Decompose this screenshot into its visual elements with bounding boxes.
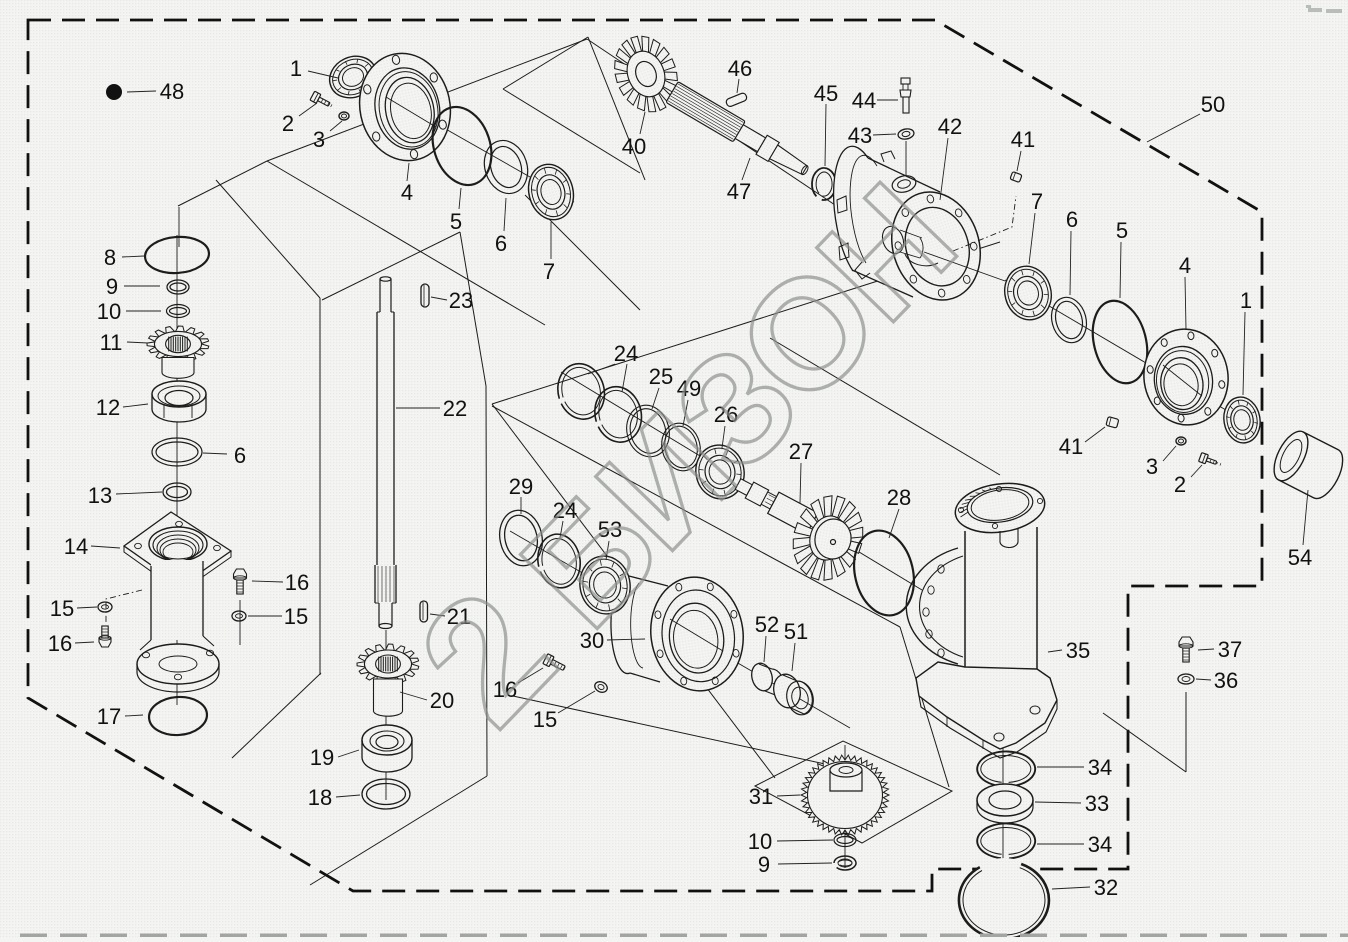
panel line B-top — [503, 37, 588, 89]
line 44 to housing hole — [905, 141, 907, 177]
svg-text:37: 37 — [1218, 637, 1242, 662]
plug 41 top — [1010, 172, 1022, 183]
label 10 bottom — [748, 829, 833, 854]
label 34b — [1037, 832, 1112, 857]
panel line A-leader — [178, 161, 267, 206]
panel line B-right — [588, 37, 645, 180]
svg-text:1: 1 — [290, 56, 302, 81]
watermark BIZON — [383, 154, 986, 761]
panel line D-top — [770, 338, 1000, 475]
svg-text:28: 28 — [887, 485, 911, 510]
panel line gear20-bottom — [310, 776, 487, 885]
split ring 34a — [977, 751, 1035, 786]
label 31 — [749, 784, 800, 809]
snap ring 32 — [959, 858, 1049, 942]
svg-text:18: 18 — [308, 785, 332, 810]
svg-text:34: 34 — [1088, 832, 1112, 857]
label 29 — [509, 474, 533, 514]
ring 13 — [163, 483, 191, 501]
label 49 — [677, 376, 701, 426]
axis line ring group 24-27 — [561, 372, 922, 590]
label 9 bottom — [758, 852, 832, 877]
washer 15 mid — [593, 680, 609, 695]
svg-text:36: 36 — [1214, 668, 1238, 693]
panel line A-left — [267, 161, 545, 325]
pin 23 — [421, 284, 429, 307]
label 46 — [728, 56, 752, 93]
svg-text:6: 6 — [1066, 207, 1078, 232]
label 24 top — [588, 341, 638, 392]
svg-text:4: 4 — [1179, 253, 1191, 278]
label 15 left — [50, 596, 97, 621]
split ring 34b — [977, 823, 1035, 858]
bottom edge cut-off marks — [20, 934, 1348, 938]
o-ring 28 — [846, 525, 922, 622]
nut 3 right — [1176, 437, 1186, 445]
line 16r-flange — [239, 600, 241, 645]
o-ring 17 — [148, 695, 209, 737]
label 15 mid — [533, 691, 595, 732]
svg-text:8: 8 — [104, 245, 116, 270]
panel line shaft22-left — [319, 298, 321, 675]
ring 10 — [167, 305, 190, 318]
label 16 right — [252, 570, 309, 595]
42 dash-dot to 41 — [953, 196, 1016, 251]
label 14 — [64, 534, 120, 559]
label 6 — [495, 198, 507, 256]
panel line shaft22-left-top — [216, 180, 320, 298]
panel line D-bottom — [513, 696, 825, 764]
panel line B-bottom — [503, 89, 640, 173]
label 30 — [580, 628, 645, 653]
label 13 — [88, 483, 162, 508]
svg-text:16: 16 — [48, 631, 72, 656]
housing 35 — [906, 478, 1057, 758]
flange 4 — [350, 45, 460, 169]
panel line C-bottom — [492, 406, 900, 627]
label 4 right — [1179, 253, 1191, 329]
svg-text:42: 42 — [938, 114, 962, 139]
leader to o-ring 8 — [178, 207, 180, 247]
snap ring 45 — [812, 168, 836, 200]
panel line 37-vert — [1185, 692, 1187, 772]
ring 6 right — [1047, 293, 1092, 346]
svg-text:45: 45 — [814, 81, 838, 106]
svg-text:43: 43 — [848, 123, 872, 148]
screw 2 — [310, 91, 334, 110]
screw 2 right — [1199, 453, 1222, 469]
shaft 22 — [375, 277, 396, 629]
label 1 right — [1240, 288, 1252, 395]
bolt 37 — [1179, 637, 1193, 662]
svg-text:4: 4 — [401, 180, 413, 205]
svg-text:7: 7 — [1031, 189, 1043, 214]
washer 43 — [897, 128, 914, 141]
svg-text:10: 10 — [97, 299, 121, 324]
svg-text:3: 3 — [313, 127, 325, 152]
label 2 right — [1174, 465, 1202, 497]
label 8 — [104, 245, 144, 270]
axis line left stack — [176, 235, 178, 705]
flange 14 — [124, 512, 231, 592]
label 7 — [543, 222, 555, 284]
nut 3 — [339, 112, 349, 120]
label 5 right — [1116, 218, 1128, 298]
bushing 52 — [749, 661, 784, 696]
label 47 — [727, 158, 751, 204]
svg-text:2: 2 — [1174, 472, 1186, 497]
axis in flange 4 bore — [386, 97, 436, 127]
shaft 47 — [666, 82, 813, 182]
dash-dot 14-15 — [106, 590, 142, 624]
svg-text:17: 17 — [97, 704, 121, 729]
svg-text:29: 29 — [509, 474, 533, 499]
svg-text:9: 9 — [758, 852, 770, 877]
flange 4 right — [1138, 324, 1235, 431]
label 16 left — [48, 631, 94, 656]
label 3 right — [1146, 446, 1176, 479]
svg-text:2: 2 — [282, 111, 294, 136]
svg-text:52: 52 — [755, 612, 779, 637]
panel line D-right2 — [900, 627, 949, 787]
ring 25 — [621, 401, 674, 462]
label 3 — [313, 121, 342, 152]
svg-text:32: 32 — [1094, 875, 1118, 900]
axis line gear20 stack — [385, 630, 387, 800]
label 6 stack — [203, 443, 246, 468]
svg-text:14: 14 — [64, 534, 88, 559]
item 48 dot — [106, 84, 122, 100]
svg-text:35: 35 — [1066, 638, 1090, 663]
o-ring 8 — [144, 235, 210, 275]
panel line A-right — [587, 39, 850, 215]
label 40 — [622, 112, 646, 159]
axis in flange 4R bore — [1163, 365, 1202, 396]
panel line C-top — [492, 242, 1000, 404]
label 17 — [97, 704, 143, 729]
screw 16 mid — [543, 654, 567, 674]
housing 42 — [834, 146, 994, 311]
svg-text:54: 54 — [1288, 545, 1312, 570]
svg-text:44: 44 — [852, 88, 876, 113]
panel line shaft22-roof-r — [460, 232, 486, 386]
svg-text:48: 48 — [160, 79, 184, 104]
axis in 30 bore — [670, 619, 723, 651]
label 26 — [714, 402, 738, 448]
svg-text:41: 41 — [1011, 127, 1035, 152]
svg-text:51: 51 — [784, 619, 808, 644]
bearing 7 — [523, 159, 580, 224]
label 20 — [400, 688, 454, 713]
housing 30 — [611, 571, 751, 697]
label 7 right — [1029, 189, 1043, 264]
svg-text:47: 47 — [727, 179, 751, 204]
bearing 12 — [152, 381, 206, 422]
panel line 37-diag — [1103, 713, 1186, 772]
bushing 51 — [770, 671, 817, 718]
svg-text:15: 15 — [50, 596, 74, 621]
bolt 16 right — [234, 569, 247, 594]
axis out of 42 bore — [924, 252, 1005, 281]
label 10 — [97, 299, 161, 324]
svg-text:15: 15 — [284, 604, 308, 629]
svg-text:12: 12 — [96, 395, 120, 420]
pinion shaft 27 — [732, 473, 817, 534]
label 15 right — [248, 604, 308, 629]
axis line gear31 stack — [844, 745, 846, 868]
svg-text:13: 13 — [88, 483, 112, 508]
washer 36 — [1178, 674, 1194, 684]
label 48 — [127, 79, 184, 104]
svg-text:9: 9 — [106, 274, 118, 299]
svg-text:33: 33 — [1085, 791, 1109, 816]
bearing 53 — [575, 552, 634, 618]
label 44 — [852, 88, 898, 113]
ring 6 stack — [152, 438, 202, 466]
label 1 — [290, 56, 338, 81]
axis line 34-32 stack — [1002, 735, 1004, 895]
bevel gear 27 — [783, 487, 874, 589]
ring 10 bottom — [834, 834, 856, 847]
ring 18 — [362, 779, 410, 809]
label 50 — [1147, 92, 1225, 142]
ring 29 — [495, 506, 548, 570]
washer 15 left — [98, 602, 112, 612]
label 34a — [1037, 755, 1112, 780]
label 23 — [431, 288, 473, 313]
svg-text:24: 24 — [614, 341, 638, 366]
ring 9 bottom — [834, 856, 856, 870]
bushing 54 — [1267, 426, 1348, 504]
svg-text:1: 1 — [1240, 288, 1252, 313]
label 27 — [789, 439, 813, 503]
panel line 14-bottom — [232, 673, 321, 758]
label 42 — [938, 114, 962, 200]
washer 15 right — [232, 611, 246, 621]
label 12 — [96, 395, 148, 420]
panel line D-left — [492, 404, 775, 778]
svg-text:16: 16 — [285, 570, 309, 595]
bearing 1 — [323, 49, 383, 106]
bolt 16 left — [99, 626, 111, 647]
label 18 — [308, 785, 360, 810]
bearing 26 — [691, 441, 749, 504]
svg-text:11: 11 — [100, 330, 123, 355]
label 53 — [598, 517, 622, 560]
label 33 — [1035, 791, 1109, 816]
label 41 top — [1011, 127, 1035, 171]
bevel gear 11 — [147, 326, 209, 378]
label 36 — [1196, 668, 1238, 693]
panel line A-top — [267, 39, 587, 161]
plug 41 right — [1106, 417, 1119, 429]
svg-text:31: 31 — [749, 784, 773, 809]
bevel gear 20 — [357, 644, 419, 716]
label 24 mid — [553, 498, 577, 538]
label 4 — [401, 163, 413, 205]
label 51 — [784, 619, 808, 671]
gear 40 — [604, 27, 689, 122]
axis line ring group 29-30 — [510, 531, 850, 728]
axis line right cluster — [1005, 280, 1248, 423]
svg-text:50: 50 — [1201, 92, 1225, 117]
ring 9 — [167, 280, 189, 294]
panel line shaft22-right — [486, 386, 487, 776]
svg-text:6: 6 — [234, 443, 246, 468]
label 35 — [1048, 638, 1090, 663]
svg-text:6: 6 — [495, 231, 507, 256]
svg-text:22: 22 — [443, 396, 467, 421]
svg-text:41: 41 — [1059, 434, 1083, 459]
o-ring 5 right — [1085, 295, 1156, 389]
label 22 — [396, 396, 467, 421]
label 16 mid — [493, 668, 543, 702]
svg-text:10: 10 — [748, 829, 772, 854]
label 43 — [848, 123, 896, 148]
svg-text:46: 46 — [728, 56, 752, 81]
bearing 7 right — [999, 261, 1057, 325]
ring 49 — [657, 419, 705, 475]
svg-text:34: 34 — [1088, 755, 1112, 780]
snap ring 24c — [534, 531, 585, 591]
label 45 — [814, 81, 838, 166]
svg-text:5: 5 — [1116, 218, 1128, 243]
pin 21 — [420, 601, 428, 622]
spur gear 31 — [801, 755, 889, 835]
label 25 — [649, 364, 673, 409]
label 21 — [430, 604, 471, 629]
label 6 right — [1066, 207, 1078, 295]
panel line shaft22-roof-l — [322, 232, 460, 300]
grease fitting 44 — [900, 78, 911, 113]
label 32 — [1052, 875, 1118, 900]
label 2 — [282, 103, 317, 136]
label 28 — [887, 485, 911, 538]
svg-text:40: 40 — [622, 134, 646, 159]
label 11 — [100, 330, 148, 355]
panel line gear31-quad — [755, 741, 952, 843]
ring 6 — [478, 135, 535, 199]
svg-text:19: 19 — [310, 745, 334, 770]
label 54 — [1288, 490, 1312, 570]
key 46 — [725, 92, 747, 107]
snap ring 24a — [552, 359, 610, 424]
axis line top-left cluster — [356, 78, 574, 202]
snap ring 24b — [589, 382, 647, 447]
label 19 — [310, 745, 359, 770]
label 5 — [450, 188, 462, 234]
panel line extra — [525, 195, 640, 310]
svg-text:5: 5 — [450, 209, 462, 234]
label 9 — [106, 274, 160, 299]
svg-text:20: 20 — [430, 688, 454, 713]
washer 33 — [977, 784, 1033, 823]
bearing 1 right — [1220, 394, 1263, 446]
corner mark — [1306, 5, 1342, 13]
label 52 — [755, 612, 779, 662]
tube of 14 — [137, 560, 219, 692]
label 41 right — [1059, 427, 1105, 459]
svg-text:3: 3 — [1146, 454, 1158, 479]
svg-text:23: 23 — [449, 288, 473, 313]
bearing 19 — [362, 725, 412, 772]
o-ring 5 — [423, 99, 501, 192]
svg-text:7: 7 — [543, 259, 555, 284]
label 37 — [1198, 637, 1242, 662]
